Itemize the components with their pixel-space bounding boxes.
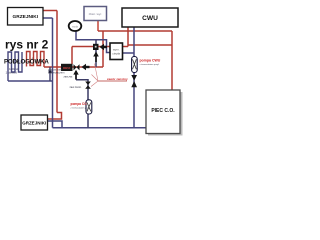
wire: red vertical x72 (71, 47, 73, 65)
svg-text:pompa CWU: pompa CWU (140, 59, 161, 63)
wire: floor loop drop x50 (49, 67, 51, 81)
mixer black box (61, 64, 73, 71)
svg-text:ciepła: ciepła (112, 51, 120, 55)
wire: red riser x57 (56, 11, 58, 113)
leader underline (98, 80, 127, 82)
black square valve x96 (93, 44, 99, 50)
naczynie ellipse (69, 21, 82, 31)
box GRZEJNIKI bottom (21, 115, 48, 130)
wire: red vertical x103 (102, 31, 104, 67)
wire: red line y45 right (128, 44, 172, 46)
wire: red stub from zbiornik (97, 21, 99, 32)
svg-text:z termostatem przył.: z termostatem przył. (140, 63, 160, 66)
wire: blue pump drop x88 (76, 80, 88, 128)
wire: link from mixer tee x76 (75, 71, 77, 80)
box zbiornik wyrownawczy (84, 7, 107, 21)
svg-text:rys nr 2: rys nr 2 (5, 38, 49, 52)
wire: blue exchanger to pump (123, 52, 135, 54)
arrow left on y67 (82, 64, 87, 70)
svg-text:1 obwód: 1 obwód (6, 71, 18, 75)
svg-text:PODŁOGÓWKA: PODŁOGÓWKA (4, 58, 49, 66)
wire: red main mixing line y67 (44, 66, 103, 68)
wire: blue CWU drop x134 (133, 27, 135, 128)
floor heating coil red (27, 52, 45, 68)
svg-text:z termostatem przył.: z termostatem przył. (71, 106, 91, 109)
svg-text:zbior. wyr.: zbior. wyr. (89, 12, 103, 16)
wire: red top line y31 (98, 30, 172, 32)
svg-text:PIEC C.O.: PIEC C.O. (151, 108, 175, 114)
pompa CO symbol (86, 100, 92, 114)
box wymiennik ciepla (110, 43, 123, 60)
wire: red jog to bottom GRZEJNIKI (47, 113, 62, 120)
wire: red boiler riser x172 (171, 31, 173, 90)
svg-text:zaw.zwr.: zaw.zwr. (64, 76, 74, 79)
svg-text:zawór zwrotny: zawór zwrotny (107, 77, 128, 81)
valve blob on x50 (49, 71, 52, 74)
box PIEC C.O. (146, 90, 180, 134)
wire: red CWU drop x128 (127, 27, 129, 47)
wire: red line y46 (72, 46, 128, 48)
check valve arrow up x96 (93, 52, 99, 57)
wire: blue return stub GRZEJNIKI top (43, 17, 53, 19)
svg-text:GRZEJNIKI: GRZEJNIKI (13, 14, 39, 20)
wire: blue riser x52.5 (52, 18, 54, 128)
wire: blue bottom GRZEJNIKI stub (47, 121, 62, 128)
valve bowtie on y67 (74, 64, 80, 70)
box CWU (122, 8, 178, 27)
svg-text:MIESZ: MIESZ (63, 67, 71, 70)
wire: valve drop x96 (95, 40, 97, 67)
svg-text:zaw.zwrot.: zaw.zwrot. (70, 85, 82, 89)
wire: blue from naczynie to valve line (76, 32, 110, 53)
svg-text:z mieszaczem: z mieszaczem (48, 70, 64, 74)
svg-text:woda: woda (72, 25, 78, 28)
check valve arrow up x76 (73, 70, 78, 75)
wire: red supply stub from GRZEJNIKI top (43, 10, 57, 12)
leader lines zawor zwrotny (91, 64, 98, 87)
wire: blue floor return y81 (8, 80, 53, 82)
wire: blue bottom return y127.7 (53, 127, 147, 129)
valve bowtie vertical x88 (85, 82, 91, 89)
box PIEC C.O. shadow (148, 92, 183, 136)
check valve x134 (131, 75, 137, 87)
svg-text:pompa CO: pompa CO (71, 102, 88, 106)
svg-text:CWU: CWU (142, 15, 158, 22)
box GRZEJNIKI top (8, 8, 44, 26)
svg-text:GRZEJNIKI: GRZEJNIKI (22, 120, 46, 125)
floor heating coil blue (8, 52, 22, 81)
pompa CWU symbol (132, 57, 138, 73)
arrow left on y46 (100, 44, 105, 50)
